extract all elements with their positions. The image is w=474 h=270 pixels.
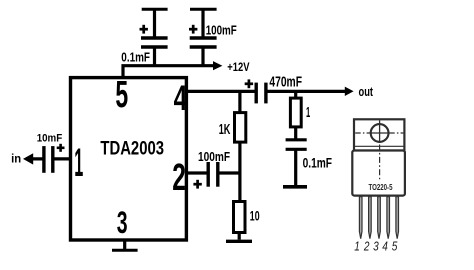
svg-text:2: 2 — [363, 239, 370, 254]
svg-text:5: 5 — [115, 73, 128, 116]
svg-text:out: out — [359, 84, 374, 99]
svg-text:TO220-5: TO220-5 — [369, 182, 393, 192]
svg-text:in: in — [11, 152, 21, 165]
svg-text:0.1mF: 0.1mF — [303, 155, 332, 170]
svg-text:10mF: 10mF — [37, 132, 63, 144]
svg-text:1: 1 — [354, 239, 360, 254]
svg-text:100mF: 100mF — [206, 23, 237, 38]
svg-text:3: 3 — [117, 204, 128, 240]
svg-text:1K: 1K — [219, 122, 231, 138]
svg-text:470mF: 470mF — [269, 75, 302, 91]
svg-text:1: 1 — [74, 141, 83, 185]
svg-text:2: 2 — [172, 157, 186, 199]
svg-text:10: 10 — [250, 208, 260, 223]
svg-text:3: 3 — [373, 239, 379, 254]
svg-text:1: 1 — [306, 105, 310, 121]
svg-text:+12V: +12V — [227, 61, 249, 74]
svg-text:4: 4 — [382, 239, 388, 254]
svg-text:4: 4 — [174, 79, 188, 118]
svg-text:TDA2003: TDA2003 — [100, 139, 164, 160]
svg-text:0.1mF: 0.1mF — [121, 49, 150, 64]
svg-text:100mF: 100mF — [198, 150, 230, 164]
svg-text:5: 5 — [392, 239, 398, 254]
